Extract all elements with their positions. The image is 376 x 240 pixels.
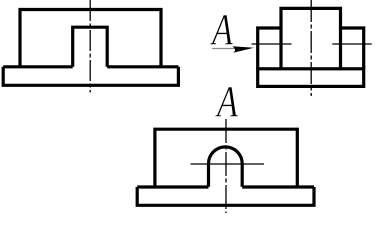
side view central block [281,8,341,68]
front view vertical centerline [89,0,91,93]
bottom view tab with arch [209,147,243,187]
front view body [20,10,161,67]
label A (view title) [217,80,238,124]
label A (arrow) [212,8,233,52]
side view horizontal centerline [252,43,372,45]
bottom view base plate [137,187,314,205]
bottom view horizontal centerline [191,163,265,165]
view arrow A head [232,46,254,53]
bottom view vertical centerline [225,119,227,213]
side view base plate [258,69,364,87]
side view right shoulder [341,28,364,69]
view arrow A shaft [212,48,236,50]
front view tab [73,27,108,67]
bottom view body [155,129,297,187]
side view left shoulder [258,28,281,69]
side view vertical centerline [310,0,312,96]
front view base plate [3,67,178,86]
